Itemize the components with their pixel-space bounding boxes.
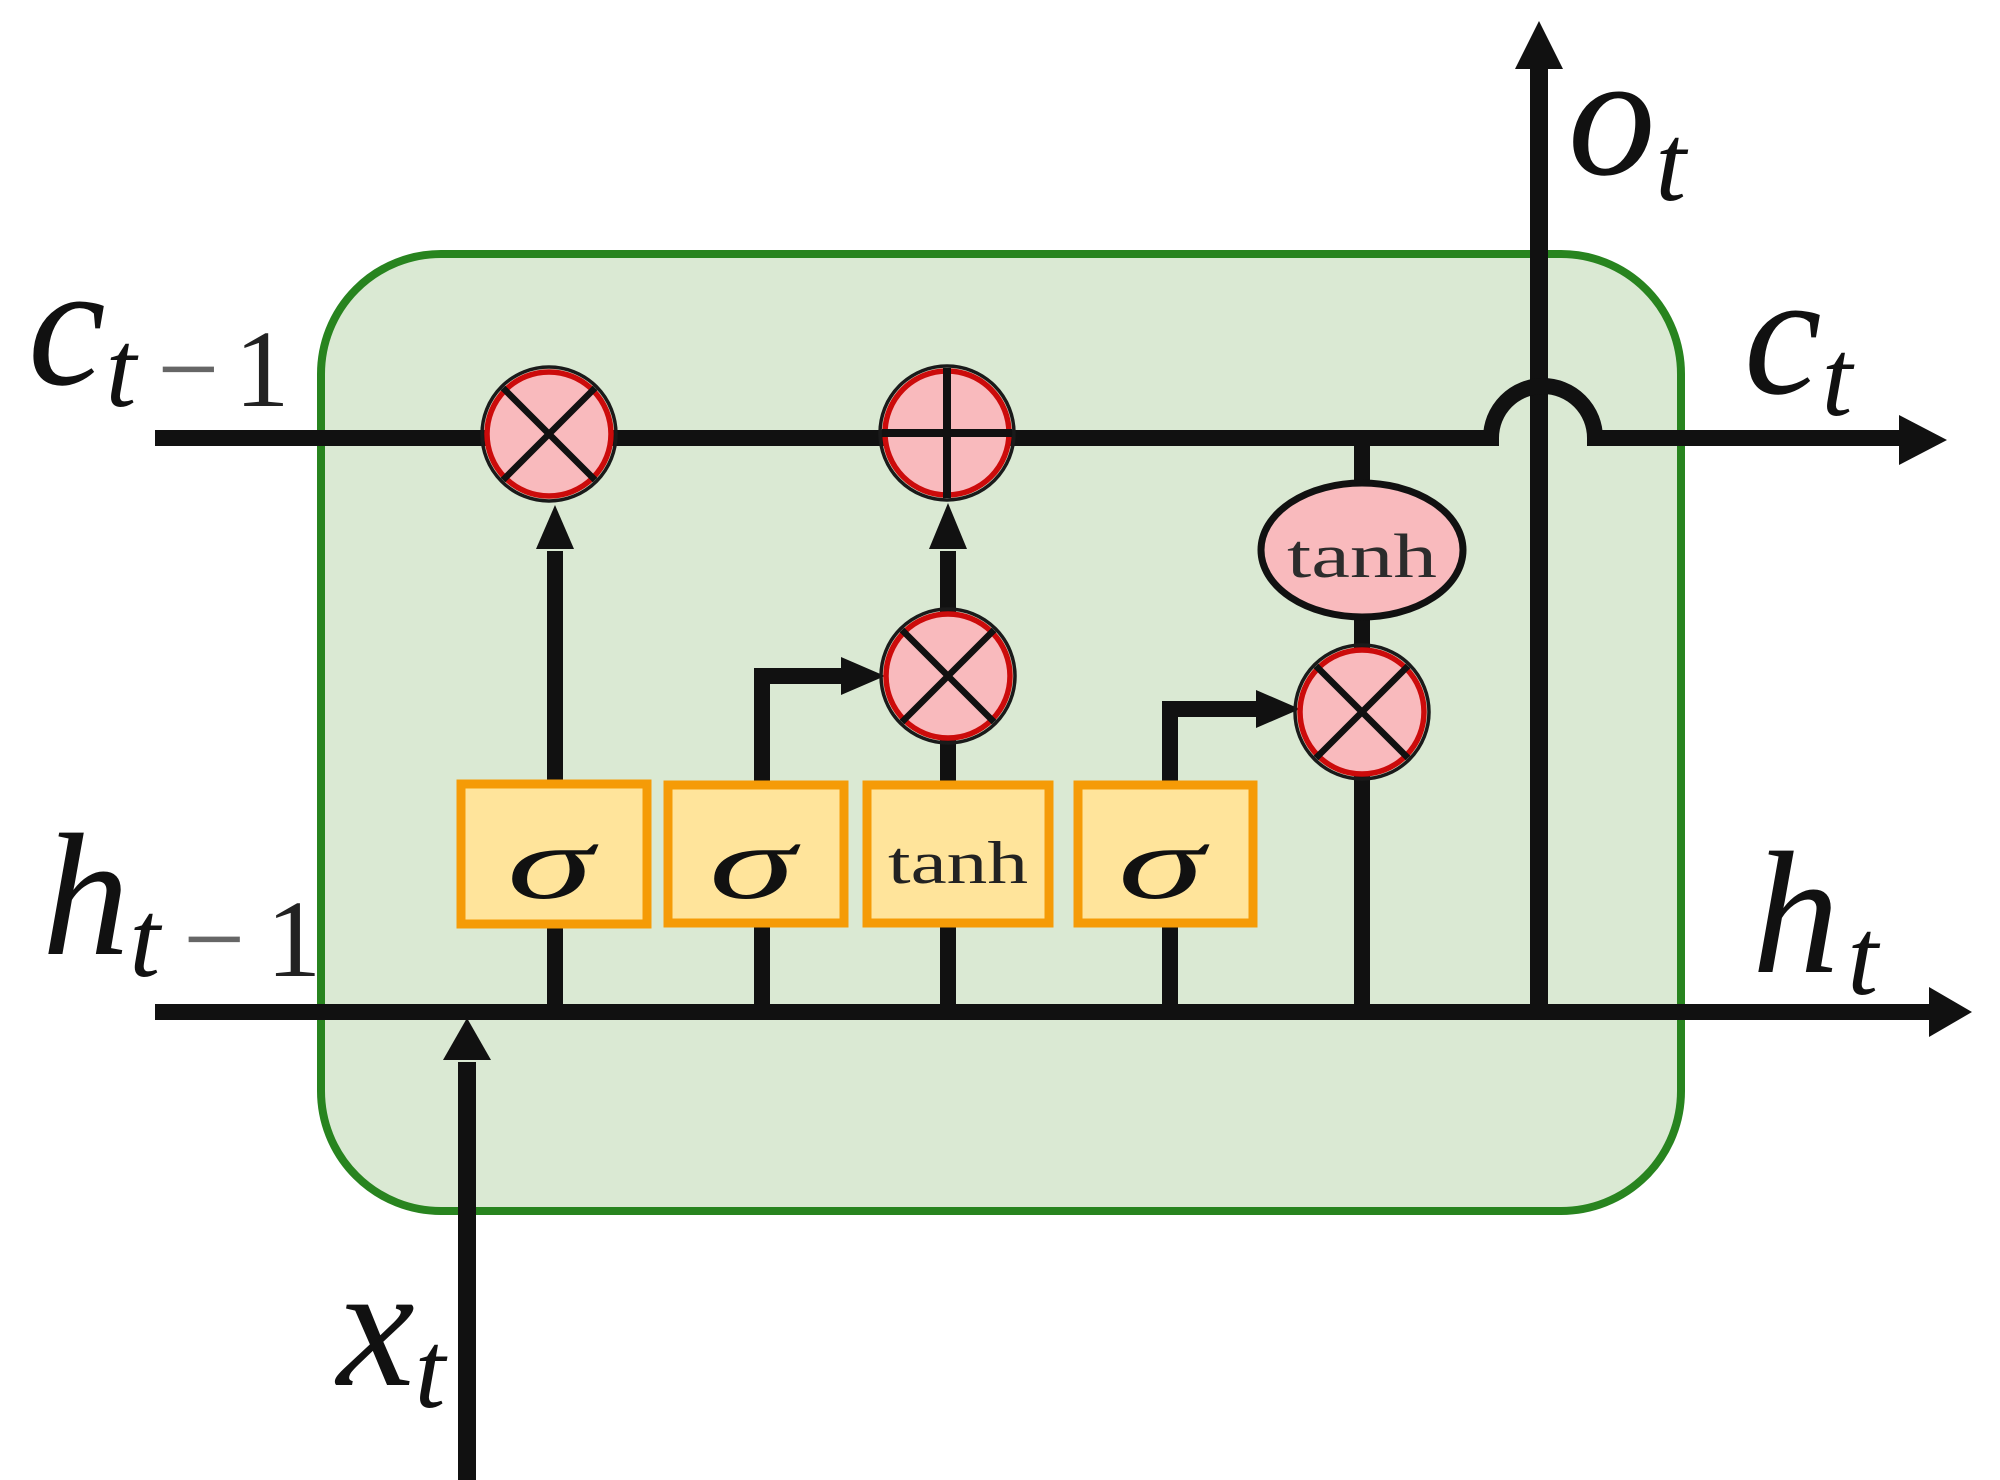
wire: riser and elbow from sigma2 into multiply node M3 xyxy=(762,657,885,1012)
wire: branch from c line down to tanh ellipse xyxy=(1354,438,1370,500)
node: tanh ellipse (cell output activation) xyxy=(1261,483,1463,617)
svg-text:ct−1: ct−1 xyxy=(28,228,289,430)
gate box: sigma 4 (output gate) xyxy=(1078,785,1253,923)
node: multiply M3 (input gate product) xyxy=(881,609,1015,743)
wire: riser from h line through tanh box to multiply node M3 xyxy=(940,700,956,1012)
arrowhead: c_t output xyxy=(1899,415,1947,465)
svg-text:ot: ot xyxy=(1568,18,1689,224)
svg-text:xt: xt xyxy=(334,1229,448,1431)
wire: link tanh ellipse to multiply node M4 xyxy=(1354,610,1370,660)
svg-text:ht: ht xyxy=(1752,816,1881,1018)
wire: o_t output vertical with up arrowhead xyxy=(1515,21,1563,1012)
svg-text:σ: σ xyxy=(1118,806,1210,921)
svg-text:tanh: tanh xyxy=(888,830,1028,896)
svg-text:ht−1: ht−1 xyxy=(42,798,321,1000)
wire: link multiply node M4 down to h line xyxy=(1354,770,1370,1012)
svg-text:tanh: tanh xyxy=(1287,523,1437,591)
wire: riser from h line through sigma1 into multiply node M1 xyxy=(536,505,574,1012)
wire: cell-state c line with hop bridge over o_t wire xyxy=(155,386,1900,438)
node: plus (cell state update) xyxy=(880,366,1014,500)
gate box: sigma 1 (forget gate) xyxy=(461,784,647,924)
LSTM cell body (green rounded box) xyxy=(321,254,1681,1211)
svg-text:σ: σ xyxy=(709,806,801,921)
wire: x_t input vertical with up arrowhead xyxy=(443,1018,491,1480)
svg-text:σ: σ xyxy=(507,806,599,921)
wire: arrow from multiply node M3 up into plus node xyxy=(929,503,967,640)
wire: hidden-state h line from h_t-1 to h_t with right arrowhead xyxy=(155,987,1972,1037)
node: multiply M4 (output gate product) xyxy=(1295,645,1429,779)
wire: riser and elbow from sigma4 into multiply node M4 xyxy=(1170,690,1300,1012)
svg-text:ct: ct xyxy=(1744,237,1855,439)
node: multiply M1 (forget gate product) xyxy=(482,367,616,501)
gate box: tanh (candidate values) xyxy=(867,785,1049,923)
gate box: sigma 2 (input gate) xyxy=(668,785,844,923)
